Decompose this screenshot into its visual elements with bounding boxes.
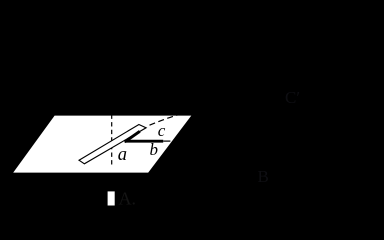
dashed diagonal line c extension	[150, 115, 179, 125]
bold wedge segment c	[125, 131, 140, 142]
svg-text:A.: A.	[119, 189, 137, 209]
svg-text:c: c	[158, 121, 166, 140]
plane alpha (white parallelogram)	[13, 116, 191, 173]
line b thick bar	[125, 140, 164, 143]
line b thin extension	[163, 140, 170, 142]
svg-text:b: b	[150, 140, 159, 159]
white rect fragment	[108, 191, 115, 205]
dashed vertical line	[111, 115, 113, 168]
rod line a	[79, 125, 146, 164]
svg-text:a: a	[118, 145, 127, 165]
svg-text:C′: C′	[285, 88, 300, 107]
svg-text:B: B	[258, 167, 269, 186]
